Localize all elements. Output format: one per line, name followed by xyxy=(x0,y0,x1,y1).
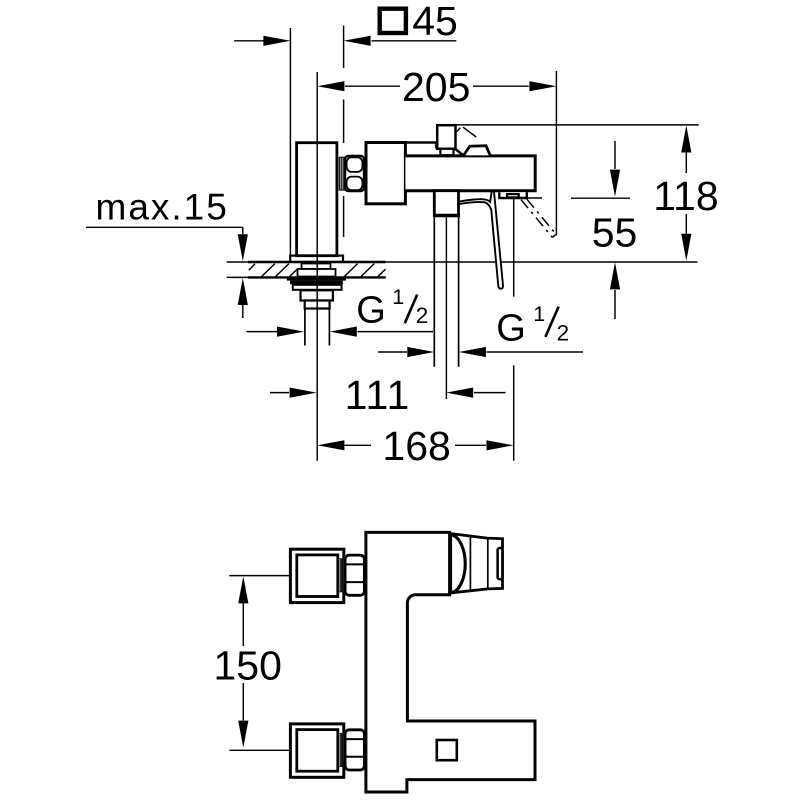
wall rim bottom line thick section xyxy=(248,276,386,278)
phantom raised lever tick 2 xyxy=(463,127,476,137)
dim G1/2 right xyxy=(378,351,583,353)
dim 150 arrows xyxy=(242,603,244,721)
handle panel line 1 xyxy=(469,536,471,592)
dim square45 line left xyxy=(234,40,263,42)
shower outlet pipe right edge xyxy=(458,217,460,367)
lower union dark band xyxy=(338,733,344,767)
handle cup arc xyxy=(451,535,465,593)
spout bar (side view) xyxy=(405,156,535,191)
extension line x556.4 (lever tip) xyxy=(555,71,557,236)
dim 55 arrows xyxy=(614,141,616,319)
extension line x513.7 (aerator) xyxy=(513,199,515,461)
aerator square hole xyxy=(437,740,457,760)
S-union hex nut (side view) xyxy=(345,156,364,191)
dim max.15 leader xyxy=(86,227,243,234)
handle end view xyxy=(451,534,503,593)
S-union threaded band xyxy=(339,157,345,191)
lower hex nut xyxy=(345,730,364,770)
phantom lever tip cap xyxy=(552,234,555,237)
upper hex nut xyxy=(345,555,364,595)
svg-text:55: 55 xyxy=(592,209,638,255)
svg-text:1: 1 xyxy=(533,302,545,326)
svg-text:111: 111 xyxy=(345,372,411,418)
svg-text:168: 168 xyxy=(382,423,450,469)
dim 168 xyxy=(345,444,487,446)
svg-text:G: G xyxy=(496,307,526,349)
cartridge deck top line xyxy=(405,143,436,149)
square symbol of 45 xyxy=(380,9,406,33)
dim square45 line right xyxy=(372,40,457,42)
lower escutcheon square inner xyxy=(297,730,338,772)
wall rim bottom line (thin left part) xyxy=(227,276,248,278)
svg-text:118: 118 xyxy=(653,173,718,219)
locknut ring A under deck xyxy=(302,264,331,270)
phantom raised lever tick 1 xyxy=(457,128,461,132)
phantom raised lever line B xyxy=(527,199,556,234)
locknut white ring xyxy=(293,285,342,290)
escutcheon base flange xyxy=(290,256,343,262)
extension line x343.6 (square 45 right) segments xyxy=(343,26,345,238)
wall hatch lines xyxy=(249,264,386,277)
svg-text:150: 150 xyxy=(214,643,282,689)
supply pipe left edge xyxy=(304,309,306,346)
lower escutcheon square outer xyxy=(290,724,343,777)
wall rim top line thick section xyxy=(248,261,385,263)
extension line x291 (square 45 left) xyxy=(289,28,291,256)
locknut ring B under deck xyxy=(298,269,336,277)
upper escutcheon square inner xyxy=(297,555,338,597)
aerator slot xyxy=(507,194,519,197)
handle end slot xyxy=(498,548,503,579)
dim 150 leader lower xyxy=(229,749,290,751)
locknut black band 2 xyxy=(290,281,343,285)
svg-text:1: 1 xyxy=(392,285,404,309)
handle panel line 2 xyxy=(487,539,489,589)
step under stem xyxy=(440,149,453,155)
spout aerator housing xyxy=(499,192,527,198)
dim 118 xyxy=(685,152,687,234)
dim 150 leader upper xyxy=(229,575,290,577)
svg-text:G: G xyxy=(356,290,386,332)
extension line y124.9 (stem top) xyxy=(456,124,699,126)
extension line x317.2 (pipe centre) xyxy=(316,72,318,461)
connection block xyxy=(366,143,405,204)
body outline (front view) xyxy=(366,532,535,792)
svg-text:2: 2 xyxy=(416,303,429,328)
diverter block below bar xyxy=(434,191,458,216)
dim 205 line xyxy=(345,85,529,87)
lever arm diagonal xyxy=(456,149,464,155)
svg-text:max.15: max.15 xyxy=(96,186,229,227)
dim 55 reference line at aerator level xyxy=(505,197,630,199)
locknut black band 1 xyxy=(287,277,346,281)
dim G1/2 left xyxy=(247,331,434,333)
phantom raised lever line A xyxy=(521,200,552,238)
escutcheon column (side view) xyxy=(297,143,337,256)
handle stem xyxy=(437,125,455,149)
supply pipe right edge xyxy=(328,309,330,346)
svg-text:45: 45 xyxy=(412,0,458,44)
upper union dark band xyxy=(338,558,344,592)
shower outlet pipe left edge xyxy=(433,217,435,367)
extension line x446.4 (shower pipe centre) xyxy=(445,217,447,399)
wall rim top line (thin full span) xyxy=(227,261,698,263)
locknut step 1 xyxy=(301,290,333,300)
svg-text:205: 205 xyxy=(402,64,470,110)
svg-text:2: 2 xyxy=(557,320,570,345)
lever grip trapezoid xyxy=(464,146,491,156)
locknut step 2 xyxy=(305,301,330,309)
lever (closed position) xyxy=(456,192,503,289)
dim 111 xyxy=(270,392,506,394)
upper escutcheon square outer xyxy=(290,549,343,602)
